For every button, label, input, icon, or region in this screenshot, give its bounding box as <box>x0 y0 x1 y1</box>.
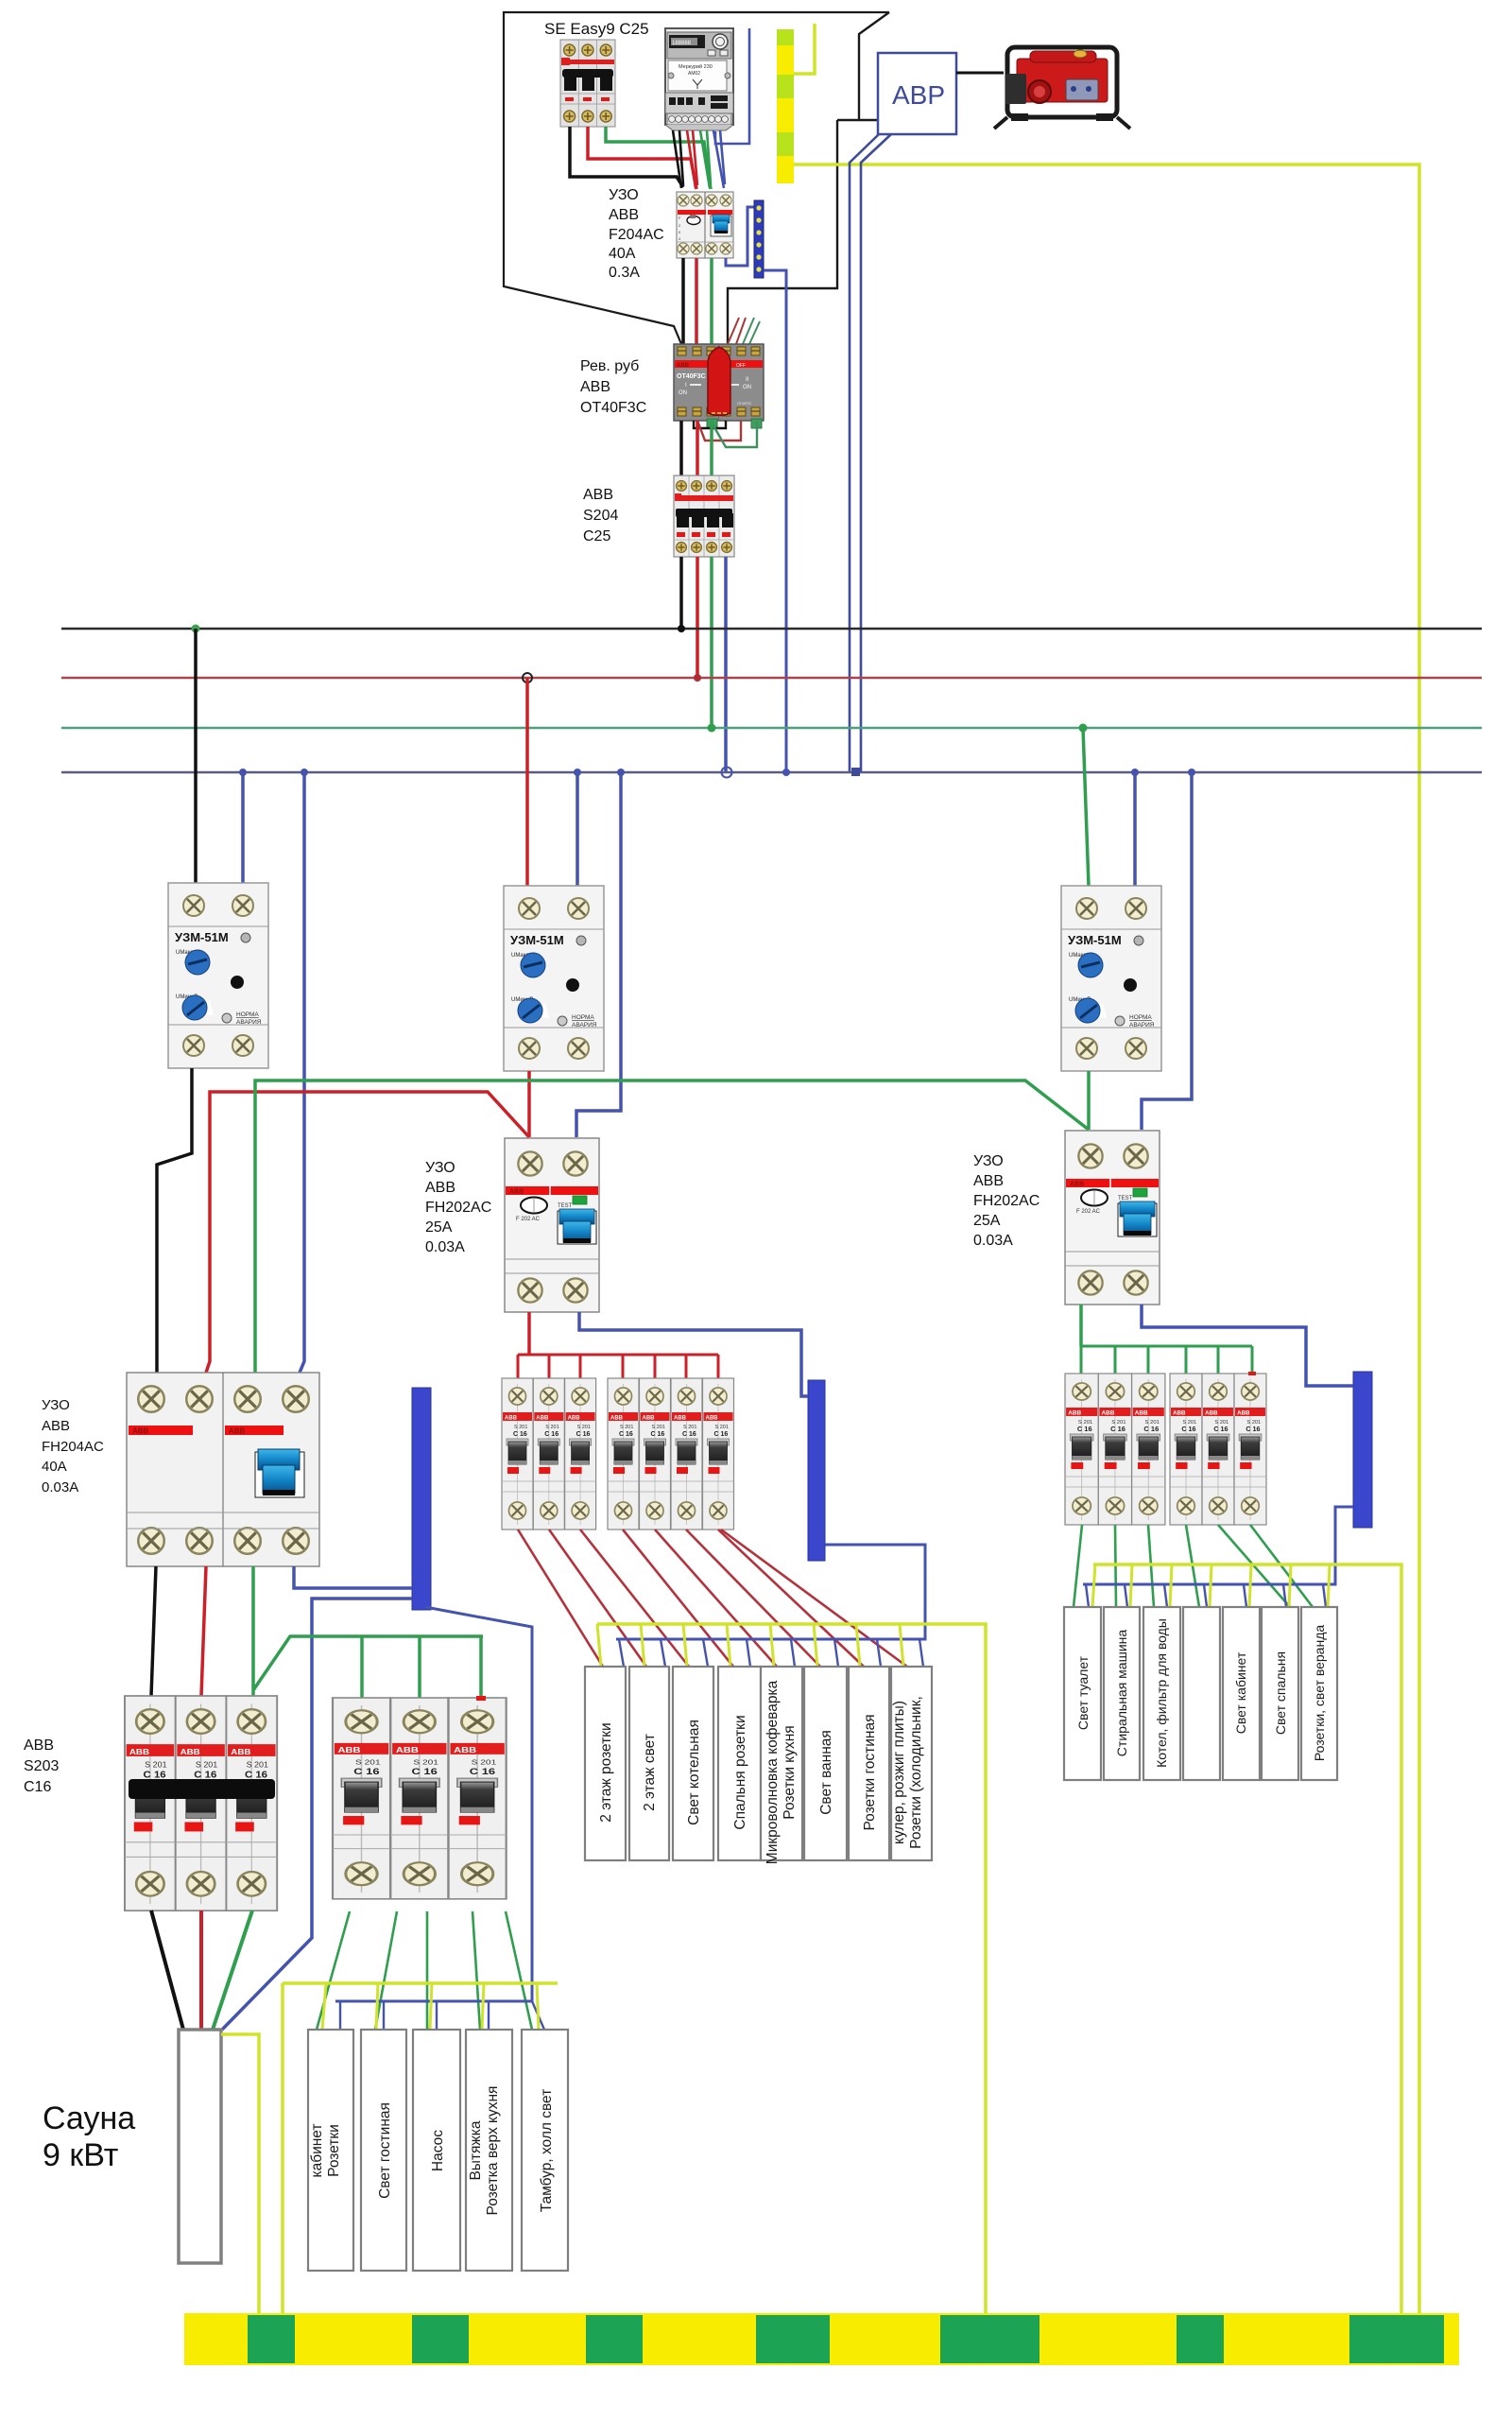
svg-text:25А: 25А <box>425 1219 453 1236</box>
svg-text:Розетки гостиная: Розетки гостиная <box>862 1714 878 1830</box>
svg-text:Вытяжка: Вытяжка <box>468 2120 484 2180</box>
svg-text:ОТ40F3C: ОТ40F3C <box>580 400 646 416</box>
svg-text:25А: 25А <box>973 1213 1001 1229</box>
svg-text:OFF: OFF <box>736 363 746 369</box>
svg-text:Розетка верх кухня: Розетка верх кухня <box>485 2086 501 2216</box>
svg-text:Свет спальня: Свет спальня <box>1273 1651 1288 1735</box>
svg-text:Стиральная машина: Стиральная машина <box>1114 1630 1129 1757</box>
svg-text:УЗО: УЗО <box>973 1153 1004 1169</box>
svg-text:УЗО: УЗО <box>609 187 639 203</box>
svg-text:FH202AC: FH202AC <box>973 1193 1039 1209</box>
svg-text:Свет кабинет: Свет кабинет <box>1233 1651 1248 1734</box>
svg-text:Свет туалет: Свет туалет <box>1075 1655 1091 1730</box>
svg-text:Розетки кухня: Розетки кухня <box>782 1725 798 1819</box>
svg-text:Тамбур, холл свет: Тамбур, холл свет <box>539 2089 555 2213</box>
svg-text:188888: 188888 <box>672 41 692 46</box>
svg-text:FH204AC: FH204AC <box>42 1439 104 1455</box>
svg-text:Розетки, свет веранда: Розетки, свет веранда <box>1312 1625 1327 1762</box>
svg-text:АВВ: АВВ <box>24 1737 54 1754</box>
svg-text:Насос: Насос <box>430 2130 446 2171</box>
svg-text:Котел, фильтр для воды: Котел, фильтр для воды <box>1154 1618 1169 1768</box>
svg-text:АВВ: АВВ <box>42 1418 70 1434</box>
svg-text:F204AC: F204AC <box>609 227 664 243</box>
svg-text:Розетки (холодильник,: Розетки (холодильник, <box>908 1696 924 1849</box>
svg-text:Розетки: Розетки <box>326 2124 342 2177</box>
svg-text:Микроволновка кофеварка: Микроволновка кофеварка <box>765 1680 781 1864</box>
svg-text:АВР: АВР <box>892 80 945 110</box>
svg-text:С25: С25 <box>583 528 610 544</box>
svg-text:40А: 40А <box>42 1459 67 1475</box>
svg-text:АВВ: АВВ <box>609 207 639 223</box>
svg-text:Меркурий 230: Меркурий 230 <box>679 63 713 70</box>
svg-text:АВВ: АВВ <box>425 1180 455 1196</box>
svg-text:Сауна: Сауна <box>43 2100 135 2136</box>
svg-text:Свет гостиная: Свет гостиная <box>377 2102 393 2199</box>
svg-text:OT40F3C: OT40F3C <box>737 402 752 406</box>
svg-text:2 этаж розетки: 2 этаж розетки <box>598 1722 614 1822</box>
svg-text:Свет котельная: Свет котельная <box>686 1720 702 1825</box>
svg-text:0.03А: 0.03А <box>425 1239 465 1255</box>
svg-text:ON: ON <box>743 385 751 390</box>
svg-text:АВВ: АВВ <box>973 1173 1004 1189</box>
svg-text:Свет ванная: Свет ванная <box>818 1730 834 1815</box>
svg-text:FH202AC: FH202AC <box>425 1200 491 1216</box>
svg-text:SE Easy9 C25: SE Easy9 C25 <box>544 20 649 38</box>
svg-text:кулер, розжиг плиты): кулер, розжиг плиты) <box>891 1701 907 1844</box>
svg-text:2 этаж свет: 2 этаж свет <box>642 1734 658 1811</box>
svg-text:С16: С16 <box>24 1779 51 1795</box>
svg-text:Рев. руб: Рев. руб <box>580 358 639 374</box>
svg-text:40A: 40A <box>609 246 636 262</box>
svg-text:II: II <box>746 377 749 383</box>
svg-text:АВВ: АВВ <box>580 379 610 395</box>
svg-text:OT40F3C: OT40F3C <box>677 373 706 380</box>
svg-text:0.03А: 0.03А <box>973 1233 1013 1249</box>
svg-text:S203: S203 <box>24 1758 59 1774</box>
svg-text:ABB: ABB <box>677 363 690 369</box>
svg-text:9 кВт: 9 кВт <box>43 2137 118 2173</box>
svg-text:0.03А: 0.03А <box>42 1479 78 1495</box>
svg-text:ABB: ABB <box>229 1427 246 1436</box>
svg-text:0.3A: 0.3A <box>609 265 640 281</box>
svg-text:кабинет: кабинет <box>309 2123 325 2177</box>
svg-text:ON: ON <box>679 390 687 396</box>
svg-text:УЗО: УЗО <box>42 1397 70 1413</box>
svg-text:S204: S204 <box>583 508 618 524</box>
svg-text:ABB: ABB <box>132 1427 149 1436</box>
svg-text:AM02: AM02 <box>688 71 700 77</box>
svg-text:УЗО: УЗО <box>425 1160 455 1176</box>
svg-text:Спальня розетки: Спальня розетки <box>732 1715 748 1829</box>
svg-text:АВВ: АВВ <box>583 487 613 503</box>
